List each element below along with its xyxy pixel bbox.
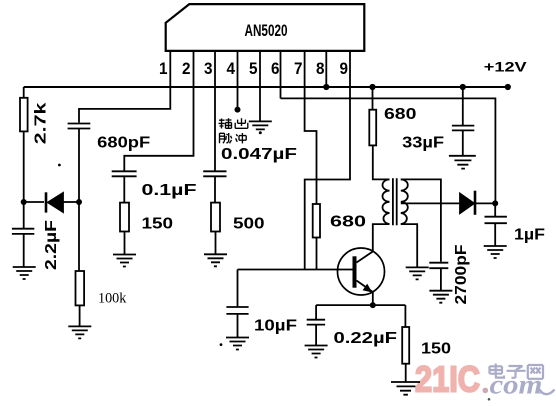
svg-text:150: 150 xyxy=(421,341,451,358)
capacitor 10uF xyxy=(226,307,248,314)
resistor 680 (pin7 chain) xyxy=(313,204,320,238)
wire +12V bus xyxy=(24,86,508,88)
svg-text:+12V: +12V xyxy=(484,59,528,75)
watermark chinese zi xyxy=(507,366,526,378)
node bus-680 junction xyxy=(369,84,375,90)
resistor 150 (left) xyxy=(120,203,129,232)
transformer T1 secondary winding xyxy=(401,179,408,224)
capacitor 33uF xyxy=(452,126,474,131)
resistor 500 xyxy=(211,203,220,232)
wire 680 to base rail xyxy=(316,238,318,270)
node bus end junction xyxy=(505,84,511,90)
wire pin 6 lead xyxy=(280,51,282,99)
svg-text:680: 680 xyxy=(384,106,417,123)
ground below 1uF xyxy=(484,246,507,258)
node bus-33uF junction xyxy=(460,84,466,90)
ground below 150 right xyxy=(391,382,420,395)
svg-text:0.1µF: 0.1µF xyxy=(142,182,197,199)
wire 150 to ground xyxy=(405,364,407,382)
wire emitter rail xyxy=(316,304,405,306)
ground pin 5 xyxy=(249,121,272,129)
resistor 680 (top) xyxy=(369,110,376,146)
wire 500 to ground xyxy=(215,232,217,255)
svg-text:100k: 100k xyxy=(98,291,127,307)
stray speck 2 xyxy=(220,343,223,346)
wire pin 8 lead xyxy=(325,51,327,87)
svg-text:8: 8 xyxy=(316,59,325,78)
wire 10uF chain xyxy=(237,270,239,338)
wire primary bottom to collector xyxy=(373,224,390,252)
diode D1 cathode bar xyxy=(45,192,48,212)
transformer T1 primary winding xyxy=(383,179,390,224)
resistor 2.7k chain wire xyxy=(23,87,25,98)
svg-text:1: 1 xyxy=(159,59,168,78)
watermark com swash xyxy=(540,390,555,395)
svg-text:9: 9 xyxy=(340,59,349,78)
capacitor 1uF xyxy=(485,217,507,224)
wire pin 2 lead xyxy=(124,51,193,171)
wire 33uF chain xyxy=(462,87,464,126)
stray speck 3 xyxy=(488,398,491,401)
label pulse chinese mai xyxy=(220,133,232,143)
ground below 150 left xyxy=(113,255,136,267)
node B junction xyxy=(76,199,82,205)
capacitor 680pF xyxy=(68,124,91,129)
svg-text:21IC: 21IC xyxy=(415,359,480,400)
wire 1uF chain xyxy=(494,203,496,246)
wire secondary tap to diode xyxy=(401,202,460,204)
ground below transformer xyxy=(406,267,429,279)
resistor 2.7k xyxy=(20,98,28,132)
wire 0.047uF to 500 xyxy=(214,176,216,202)
wire pin 4 lead xyxy=(237,51,239,110)
wire pin 9 lead xyxy=(305,51,350,270)
ground below 2.2uF xyxy=(13,267,36,279)
wire 2700pF to ground xyxy=(440,268,442,291)
svg-text:3: 3 xyxy=(204,59,213,78)
stray speck 1 xyxy=(58,164,61,167)
svg-text:com: com xyxy=(490,370,543,400)
svg-text:7: 7 xyxy=(294,59,303,78)
wire 0.1uF to 150 xyxy=(123,176,125,202)
ground below 100k xyxy=(68,326,91,338)
wire 2.7k to node A xyxy=(23,131,25,228)
wire pin 3 lead xyxy=(214,51,216,171)
watermark chinese dian xyxy=(490,364,544,379)
wire 0.22uF chain xyxy=(315,305,317,345)
svg-text:2.2µF: 2.2µF xyxy=(43,220,60,270)
svg-text:0.22µF: 0.22µF xyxy=(334,330,398,347)
transistor Q1 base bar xyxy=(353,256,357,287)
svg-text:2700pF: 2700pF xyxy=(453,244,470,304)
node emitter junction xyxy=(370,302,376,308)
svg-text:10µF: 10µF xyxy=(254,318,297,335)
wire base rail xyxy=(238,269,353,271)
svg-text:5: 5 xyxy=(249,59,258,78)
capacitor 0.047uF xyxy=(203,171,226,176)
ground pin 5 dot xyxy=(259,131,262,134)
transistor Q1 emitter arrow xyxy=(363,284,373,293)
svg-text:680: 680 xyxy=(330,214,366,231)
watermark dot xyxy=(483,388,489,394)
label pulse chinese chong xyxy=(236,133,247,143)
transistor Q1 circle xyxy=(338,248,385,295)
ground below 500 xyxy=(204,254,227,266)
wire pin 7 lead xyxy=(305,51,317,204)
svg-text:AN5020: AN5020 xyxy=(245,21,288,40)
capacitor 2700pF xyxy=(429,263,448,269)
svg-text:33µF: 33µF xyxy=(402,134,444,151)
resistor 150 (right) xyxy=(402,327,409,364)
wire rail from pin 6 xyxy=(281,98,496,203)
node output pulse terminal xyxy=(235,107,241,113)
ground below 0.22uF xyxy=(305,346,328,358)
svg-text:680pF: 680pF xyxy=(97,135,150,152)
diode D1 wire right xyxy=(63,201,79,203)
wire 680pF to 100k xyxy=(78,129,80,272)
wire 150 to ground xyxy=(124,232,126,255)
wire emitter down xyxy=(372,291,374,305)
wire 150 right chain xyxy=(404,305,406,327)
wire pin 5 lead xyxy=(259,51,261,122)
op-amp U1 AN5020 body xyxy=(166,4,365,51)
diode D2 wire right xyxy=(476,202,495,204)
svg-text:6: 6 xyxy=(271,59,280,78)
wire 680 to transformer xyxy=(373,145,390,179)
svg-text:0.047µF: 0.047µF xyxy=(221,146,297,163)
transistor Q1 collector xyxy=(357,252,373,263)
label output pulse chinese chu xyxy=(235,118,248,128)
svg-text:500: 500 xyxy=(233,216,265,233)
diode D2 cathode bar xyxy=(474,191,477,215)
node diode-1uF junction xyxy=(492,200,498,206)
svg-text:2: 2 xyxy=(182,59,191,78)
wire secondary bottom to ground xyxy=(401,224,417,267)
node pin8 junction xyxy=(323,84,329,90)
wire secondary top xyxy=(401,179,441,261)
node A junction xyxy=(21,199,27,205)
diode D1 wire left xyxy=(24,201,44,203)
ground below 2700pF xyxy=(429,291,452,303)
wire bus to 680 top xyxy=(372,87,374,110)
svg-text:4: 4 xyxy=(227,59,236,78)
transformer T1 core xyxy=(393,178,397,225)
label output pulse chinese shu xyxy=(219,118,248,143)
svg-text:150: 150 xyxy=(142,216,174,233)
capacitor 0.1uF xyxy=(112,171,137,176)
wire pin 1 lead xyxy=(79,51,170,123)
watermark chinese wang xyxy=(528,365,543,379)
svg-text:2.7k: 2.7k xyxy=(33,102,50,144)
transistor Q1 emitter xyxy=(357,281,373,293)
ground below 33uF xyxy=(449,156,476,169)
capacitor 2.2uF xyxy=(12,229,34,267)
wire 100k to ground xyxy=(79,305,81,326)
ground below 10uF xyxy=(226,338,249,350)
svg-text:1µF: 1µF xyxy=(514,227,545,244)
diode D2 xyxy=(460,194,474,214)
capacitor 0.22uF xyxy=(307,320,325,325)
resistor 100k xyxy=(76,271,85,305)
diode D1 xyxy=(48,193,63,212)
